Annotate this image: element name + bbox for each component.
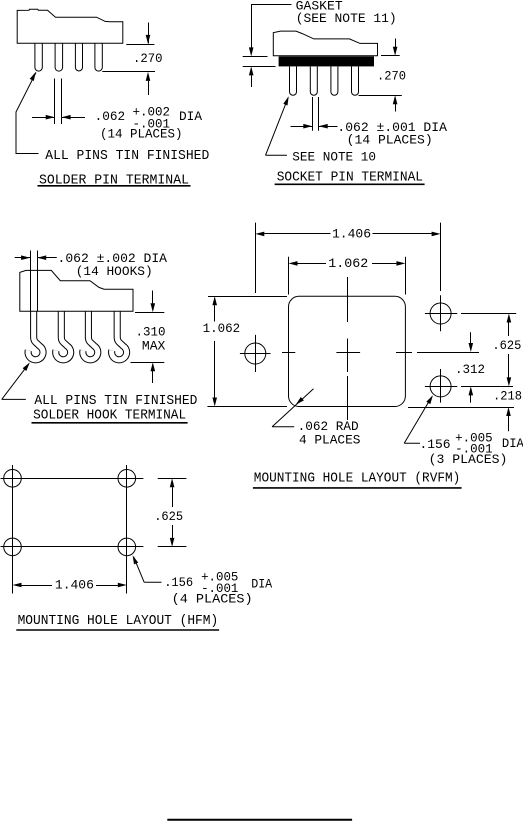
hole left bbox=[245, 343, 266, 364]
dim text .156 (rvfm) bbox=[420, 437, 451, 452]
gasket ext line bottom bbox=[243, 66, 276, 68]
title underline (hfm) bbox=[16, 629, 219, 631]
hfm centerline top bbox=[1, 478, 144, 480]
socket pin 2 bbox=[310, 66, 317, 95]
dim 1.062 left bottom arrow bbox=[212, 341, 217, 407]
pin 1 (solder) bbox=[35, 43, 42, 71]
dim text 1.062 top bbox=[328, 256, 368, 271]
dim text DIA (rvfm) bbox=[502, 436, 523, 451]
bottom rule bbox=[167, 819, 352, 821]
dim .062 left arrow (socket) bbox=[291, 124, 313, 129]
title underline bbox=[38, 185, 191, 187]
hole top right bbox=[430, 303, 451, 324]
dim 1.406 line left bbox=[255, 232, 330, 237]
dim text .218 bbox=[493, 389, 522, 404]
svg-text:1.062: 1.062 bbox=[328, 256, 368, 271]
dim text DIA (hfm) bbox=[251, 577, 272, 592]
hfm .625 top arrow bbox=[170, 478, 175, 507]
dim .270 bottom arrow bbox=[146, 72, 151, 95]
tolerance -.001 (rvfm) bbox=[455, 442, 493, 457]
note ALL PINS TIN FINISHED bbox=[45, 148, 209, 164]
ext line body bottom right bbox=[381, 55, 400, 57]
dim .062 extension lines bbox=[55, 79, 62, 125]
svg-text:SEE NOTE 10: SEE NOTE 10 bbox=[292, 149, 376, 164]
square center mark vertical bbox=[347, 277, 349, 420]
dim text .156 (hfm) bbox=[164, 575, 193, 590]
note (14 PLACES) bbox=[100, 126, 183, 141]
dim text .625 (hfm) bbox=[154, 509, 183, 524]
ext line hook bottom bbox=[131, 362, 165, 364]
ext line square bottom right bbox=[408, 407, 514, 409]
socket pin 3 bbox=[331, 66, 338, 95]
leader all pins tin finished bbox=[16, 72, 39, 154]
dim .270 top arrow (socket) bbox=[393, 39, 398, 56]
pin 2 (solder) bbox=[55, 43, 63, 71]
title underline (socket) bbox=[275, 183, 425, 185]
hole bottom right bbox=[430, 376, 451, 397]
ext line hole BR right bbox=[461, 386, 513, 388]
tolerance +.005 (hfm) bbox=[201, 569, 238, 584]
hole top right crosshair bbox=[425, 295, 457, 331]
svg-text:.156: .156 bbox=[420, 437, 451, 452]
hook 4 curl bbox=[112, 311, 127, 360]
dim text 1.062 left bbox=[203, 321, 241, 336]
ext line body bottom (hook fig) bbox=[135, 312, 164, 314]
dim text .270 bbox=[133, 51, 163, 66]
square center mark horizontal bbox=[282, 352, 412, 354]
ext line hole TR right bbox=[461, 313, 516, 315]
label GASKET bbox=[296, 0, 343, 13]
dim .625 bottom arrow bbox=[507, 354, 512, 386]
note ALL PINS TIN FINISHED (hook) bbox=[34, 393, 197, 409]
hfm centerline left bbox=[12, 465, 14, 594]
title underline (hook) bbox=[32, 422, 188, 424]
dim .270 top arrow bbox=[146, 23, 151, 44]
dim .310 top arrow bbox=[151, 291, 156, 313]
dim text DIA bbox=[179, 109, 202, 124]
note .062 RAD bbox=[298, 419, 359, 434]
svg-text:SOLDER HOOK TERMINAL: SOLDER HOOK TERMINAL bbox=[33, 408, 186, 424]
leader .156 (rvfm) bbox=[404, 395, 433, 443]
svg-text:.625: .625 bbox=[492, 338, 521, 353]
dim .062 right arrow bbox=[62, 115, 85, 120]
dim .062 left arrow bbox=[32, 115, 55, 120]
gasket leader bbox=[251, 4, 291, 6]
dim .062 right arrow (socket) bbox=[319, 124, 338, 129]
gasket ext line top bbox=[243, 56, 268, 58]
dim .062 ext lines (socket) bbox=[313, 97, 319, 131]
svg-text:4 PLACES: 4 PLACES bbox=[299, 432, 361, 447]
svg-text:MAX: MAX bbox=[142, 338, 166, 353]
hfm .625 ext bottom bbox=[158, 546, 187, 548]
tolerance +.005 (rvfm) bbox=[455, 431, 493, 446]
hfm hole bottom left bbox=[4, 538, 22, 556]
dim text .062 ±.002 DIA bbox=[58, 251, 168, 266]
svg-text:1.062: 1.062 bbox=[203, 321, 241, 336]
svg-text:.062: .062 bbox=[95, 109, 126, 124]
svg-text:(3 PLACES): (3 PLACES) bbox=[429, 452, 508, 467]
svg-text:.310: .310 bbox=[136, 325, 166, 340]
dim text .062 bbox=[95, 109, 126, 124]
svg-text:DIA: DIA bbox=[502, 436, 523, 451]
dim 1.062 line left bbox=[289, 261, 327, 266]
connector body (hook terminal) bbox=[20, 270, 133, 311]
svg-text:(14 PLACES): (14 PLACES) bbox=[347, 133, 433, 148]
gasket bar bbox=[279, 56, 374, 66]
gasket dim top arrow bbox=[249, 4, 254, 56]
dim 1.062 line right bbox=[372, 261, 405, 266]
dim 1.062 ext lines bbox=[289, 257, 406, 295]
note (14 PLACES) socket bbox=[347, 133, 433, 148]
hfm hole top left bbox=[4, 470, 22, 488]
svg-text:.312: .312 bbox=[455, 362, 485, 377]
tolerance -.001 (hfm) bbox=[201, 581, 238, 596]
svg-text:ALL PINS TIN FINISHED: ALL PINS TIN FINISHED bbox=[45, 148, 209, 164]
title MOUNTING HOLE LAYOUT (HFM) bbox=[18, 613, 219, 629]
title SOCKET PIN TERMINAL bbox=[277, 170, 423, 186]
title underline (rvfm) bbox=[253, 487, 462, 489]
dim .062 hooks left arrow bbox=[15, 255, 30, 260]
hfm centerline right bbox=[126, 465, 128, 594]
hook 1 curl bbox=[28, 311, 43, 360]
pin 4 (solder) bbox=[95, 43, 102, 71]
hfm 1.406 dim left bbox=[13, 583, 53, 588]
svg-text:(14 HOOKS): (14 HOOKS) bbox=[76, 264, 153, 279]
ext line square center right bbox=[417, 352, 479, 354]
leader .156 (hfm) bbox=[133, 555, 162, 582]
svg-text:(SEE NOTE 11): (SEE NOTE 11) bbox=[296, 11, 397, 26]
hole bottom right crosshair bbox=[425, 369, 457, 403]
leader .062 rad bbox=[272, 389, 313, 427]
dim .312 bottom arrow bbox=[469, 386, 474, 402]
dim 1.062 left top arrow bbox=[212, 296, 217, 321]
gasket dim bottom arrow bbox=[249, 66, 254, 87]
ext line pin tips (socket) bbox=[359, 95, 402, 97]
svg-text:1.406: 1.406 bbox=[332, 227, 371, 242]
hook 1 wire extension lines bbox=[31, 251, 38, 312]
svg-text:MOUNTING HOLE LAYOUT (HFM): MOUNTING HOLE LAYOUT (HFM) bbox=[18, 613, 219, 629]
socket pin 4 bbox=[352, 66, 359, 95]
dim text .312 bbox=[455, 362, 485, 377]
note (14 HOOKS) bbox=[76, 264, 153, 279]
hfm 1.406 dim right bbox=[96, 583, 127, 588]
hfm hole top right bbox=[118, 470, 136, 488]
note (3 PLACES) bbox=[429, 452, 508, 467]
dim .218 bottom arrow bbox=[506, 407, 511, 431]
dim 1.062 left ext lines bbox=[207, 297, 287, 407]
hfm centerline bottom bbox=[1, 546, 144, 548]
connector body (solder pin terminal) bbox=[17, 9, 123, 43]
label (SEE NOTE 11) bbox=[296, 11, 397, 26]
svg-text:SOCKET PIN TERMINAL: SOCKET PIN TERMINAL bbox=[277, 170, 423, 186]
dim 1.406 line right bbox=[373, 232, 441, 237]
dim 1.406 ext lines bbox=[256, 223, 441, 293]
svg-text:DIA: DIA bbox=[179, 109, 202, 124]
dim .625 top arrow bbox=[507, 314, 512, 337]
note (4 PLACES) bbox=[172, 592, 253, 607]
tolerance -.001 bbox=[133, 116, 171, 131]
svg-text:.270: .270 bbox=[377, 69, 406, 84]
title SOLDER PIN TERMINAL bbox=[39, 173, 189, 189]
dim text 1.406 (hfm) bbox=[55, 578, 94, 593]
hfm .625 ext top bbox=[158, 478, 187, 480]
dim .312 top arrow bbox=[469, 332, 474, 352]
svg-text:(4 PLACES): (4 PLACES) bbox=[172, 592, 253, 607]
hook 3 curl bbox=[83, 311, 98, 360]
dim text .310 bbox=[136, 325, 166, 340]
svg-text:.625: .625 bbox=[154, 509, 183, 524]
pin 3 (solder) bbox=[75, 43, 82, 71]
socket pin 1 bbox=[290, 66, 297, 95]
extension line pin tips bbox=[102, 71, 155, 73]
dim .270 bottom arrow (socket) bbox=[393, 95, 398, 111]
svg-text:DIA: DIA bbox=[251, 577, 272, 592]
extension line body bottom bbox=[126, 44, 154, 46]
svg-text:.218: .218 bbox=[493, 389, 522, 404]
dim text .270 (socket) bbox=[377, 69, 406, 84]
dim text .062 ±.001 DIA bbox=[337, 120, 447, 135]
leader see note 10 bbox=[266, 96, 289, 155]
dim text 1.406 (rvfm) bbox=[332, 227, 371, 242]
svg-text:1.406: 1.406 bbox=[55, 578, 94, 593]
note 4 PLACES bbox=[299, 432, 361, 447]
connector body (socket pin terminal) bbox=[273, 31, 377, 56]
svg-text:.156: .156 bbox=[164, 575, 193, 590]
tolerance +.002 bbox=[133, 105, 171, 120]
dim .062 hooks right arrow bbox=[37, 255, 57, 260]
dim .310 bottom arrow bbox=[151, 362, 156, 383]
svg-text:(14 PLACES): (14 PLACES) bbox=[100, 126, 183, 141]
dim text MAX bbox=[142, 338, 166, 353]
hfm hole bottom right bbox=[118, 538, 136, 556]
title SOLDER HOOK TERMINAL bbox=[33, 408, 186, 424]
hole left crosshair bbox=[240, 335, 271, 372]
title MOUNTING HOLE LAYOUT (RVFM) bbox=[254, 471, 460, 487]
hook 2 curl bbox=[56, 311, 71, 360]
leader all pins (hook) bbox=[2, 362, 30, 399]
rounded square outline bbox=[289, 296, 406, 406]
hfm .625 bottom arrow bbox=[170, 525, 175, 547]
note SEE NOTE 10 bbox=[292, 149, 376, 164]
dim text .625 (rvfm) bbox=[492, 338, 521, 353]
svg-text:MOUNTING HOLE LAYOUT (RVFM): MOUNTING HOLE LAYOUT (RVFM) bbox=[254, 471, 460, 487]
svg-text:.270: .270 bbox=[133, 51, 163, 66]
